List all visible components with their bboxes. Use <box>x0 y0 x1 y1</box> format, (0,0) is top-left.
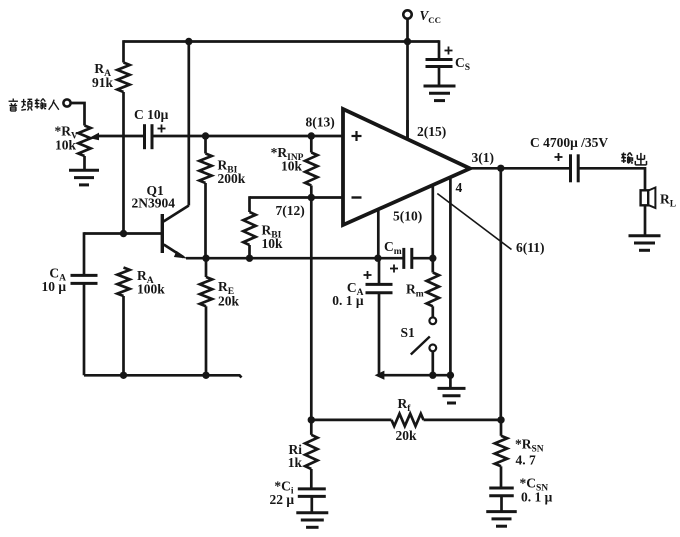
wire RA100 bottom <box>122 296 125 375</box>
wire CA bottom <box>83 283 86 375</box>
wire RE top <box>205 258 208 277</box>
terminal audio input <box>63 99 70 106</box>
switch S1 top contact <box>429 317 436 324</box>
wire cap C to op-amp pin8 <box>152 135 343 138</box>
ground bus <box>438 388 466 403</box>
label C 4700u/35V <box>530 135 608 150</box>
leader line 6(11) <box>437 194 511 250</box>
wire RBI10 top <box>248 196 251 212</box>
junction Rf Ri <box>308 416 315 423</box>
svg-text:0. 1 μ: 0. 1 μ <box>521 490 553 505</box>
ground CS <box>424 86 456 101</box>
label RBI 10k <box>262 223 284 252</box>
svg-text:3(1): 3(1) <box>472 150 495 165</box>
wire RBI200 top <box>204 136 207 154</box>
svg-text:10k: 10k <box>281 159 303 174</box>
wire CS to ground <box>438 67 441 87</box>
transistor Q1 base bar <box>161 214 164 253</box>
resistor RE 20k <box>200 277 212 306</box>
junction bus pin4 <box>447 372 454 379</box>
junction rail collector <box>185 38 192 45</box>
wire CA01 bottom <box>378 293 381 375</box>
wire emitter bus <box>186 257 404 260</box>
label RL <box>660 192 676 210</box>
label C 10u <box>134 107 169 122</box>
wire pin2 (into top edge) <box>406 120 409 140</box>
resistor Rf 20k <box>392 414 424 426</box>
wire RINP top <box>310 136 313 153</box>
label pin 2(15) <box>417 124 446 139</box>
wire pin4 to ground bus <box>449 177 452 375</box>
wire output feedback <box>499 168 502 420</box>
label RA 100k <box>137 268 165 297</box>
wire Ri to Ci <box>310 469 313 489</box>
wire base <box>84 232 161 235</box>
wire wiper to cap C <box>96 135 145 138</box>
wire RE bottom <box>205 306 208 375</box>
wire output to cap <box>468 167 571 170</box>
wiper arrow RV <box>89 133 99 141</box>
junction emitter RE <box>202 255 209 262</box>
wire Rf right <box>424 419 502 422</box>
wire CA01 top <box>378 258 381 284</box>
svg-text:1k: 1k <box>288 455 303 470</box>
svg-text:C 4700μ /35V: C 4700μ /35V <box>530 135 608 150</box>
terminal VCC <box>403 10 411 18</box>
op-amp U1 <box>343 109 470 225</box>
label pin 5(10) <box>393 209 422 224</box>
capacitor C 4700u plates <box>555 153 579 182</box>
label Rf 20k <box>396 396 418 443</box>
resistor Rm <box>427 273 439 307</box>
wire pin7 <box>250 196 344 199</box>
label Rm <box>406 282 424 300</box>
label output (CJK) <box>621 153 646 165</box>
svg-text:4: 4 <box>456 180 463 195</box>
label pin 3(1) <box>472 150 495 165</box>
wire RA91 top <box>122 40 125 62</box>
capacitor Ci plates <box>298 489 326 497</box>
wire CSN to ground <box>500 496 503 512</box>
label RSN 4.7 <box>515 437 544 468</box>
junction stub RE <box>202 372 209 379</box>
wire CS branch <box>438 40 441 59</box>
wire Ci to ground <box>310 496 313 512</box>
junction Rf RSN <box>497 416 504 423</box>
label CA 10u <box>41 266 66 295</box>
ground CSN <box>486 512 517 527</box>
wire RBI200 bottom <box>204 183 207 258</box>
junction RINP top pin8 <box>308 132 315 139</box>
wire input to pot <box>71 103 85 126</box>
junction stub RA <box>120 372 127 379</box>
label RA 91k <box>92 61 114 90</box>
resistor RA 100k <box>117 268 129 297</box>
label Cm <box>384 239 402 257</box>
resistor RBI 10k <box>243 212 255 245</box>
capacitor CA 0.1u plates <box>364 271 393 293</box>
wire RL to ground <box>644 205 647 235</box>
potentiometer RV 10k <box>78 126 90 157</box>
capacitor Cm plates <box>390 248 412 273</box>
svg-text:7(12): 7(12) <box>276 203 305 218</box>
wire VCC stem <box>406 19 409 140</box>
junction pin7 RINP <box>308 194 315 201</box>
svg-text:10k: 10k <box>262 236 284 251</box>
svg-text:C 10μ: C 10μ <box>134 107 169 122</box>
Q1 emitter arrow <box>174 251 188 259</box>
label pin 6(11) <box>516 240 545 255</box>
capacitor CSN plates <box>489 488 514 496</box>
label pin 4 <box>456 180 463 195</box>
label CA 0.1u <box>332 280 364 308</box>
capacitor CS plates <box>426 47 453 67</box>
wire cap to RL <box>578 168 645 190</box>
label S1 <box>401 325 416 340</box>
switch S1 blade <box>411 337 430 355</box>
wire RA91 bottom to base node <box>122 92 125 234</box>
svg-text:4. 7: 4. 7 <box>516 453 537 468</box>
junction VCC rail <box>404 38 411 45</box>
label pin 7(12) <box>276 203 305 218</box>
svg-text:20k: 20k <box>396 428 418 443</box>
label Ri 1k <box>288 442 303 470</box>
label audio input (CJK) <box>9 99 59 111</box>
resistor Ri 1k <box>305 435 317 469</box>
label RE 20k <box>218 279 240 309</box>
svg-text:2(15): 2(15) <box>417 124 446 139</box>
wire Rm top <box>431 258 434 272</box>
wire Cm to Rm node <box>412 257 433 260</box>
wire S1 to bus <box>431 351 434 375</box>
wire Rf left <box>311 419 391 422</box>
junction Cm Rm <box>429 255 436 262</box>
wire RSN top <box>500 420 503 436</box>
svg-text:0. 1 μ: 0. 1 μ <box>332 293 364 308</box>
junction base divider <box>120 230 127 237</box>
label RV 10k <box>55 124 79 153</box>
svg-text:6(11): 6(11) <box>516 240 545 255</box>
wire pot to ground <box>83 156 86 170</box>
label CS <box>455 55 470 73</box>
wire feedback node <box>310 198 313 420</box>
ground RV <box>69 170 99 185</box>
wire RBI10 bottom <box>248 245 251 258</box>
label RINP 10k <box>271 145 304 174</box>
resistor RSN 4.7 <box>495 436 507 467</box>
wire Rm to S1 <box>431 306 434 317</box>
wire pin5 <box>377 210 380 259</box>
wire bottom stub <box>84 375 242 377</box>
svg-text:2N3904: 2N3904 <box>132 196 176 211</box>
arrow bus end <box>375 371 385 380</box>
wire pin6 <box>431 185 434 258</box>
svg-text:91k: 91k <box>92 75 114 90</box>
svg-text:22 μ: 22 μ <box>269 492 294 507</box>
wire Ri top <box>310 420 313 435</box>
label CSN 0.1u <box>520 476 553 505</box>
wire top supply rail <box>124 40 440 43</box>
svg-text:8(13): 8(13) <box>306 115 335 130</box>
capacitor C 10u <box>145 124 166 149</box>
resistor RBI 200k <box>199 154 211 184</box>
svg-text:S1: S1 <box>401 325 416 340</box>
wire bus to ground <box>449 375 452 388</box>
label RBI 200k <box>218 158 246 187</box>
ground RL <box>629 236 661 251</box>
label pin 8(13) <box>306 115 335 130</box>
wire ground bus <box>379 374 450 377</box>
junction emitter Cm CA <box>374 255 381 262</box>
switch S1 bottom contact <box>429 345 436 352</box>
label Ci 22u <box>269 479 294 508</box>
resistor RA 91k <box>117 63 129 93</box>
ground Ci <box>296 513 328 528</box>
label Q1 2N3904 <box>132 183 176 211</box>
wire collector to rail <box>187 40 190 205</box>
wire RINP bottom <box>310 186 313 198</box>
junction RBI 200k top <box>202 132 209 139</box>
wire Q1 emitter diag <box>164 245 184 258</box>
wire CA top <box>83 232 86 275</box>
svg-text:100k: 100k <box>137 282 165 297</box>
resistor RINP 10k <box>305 153 317 186</box>
speaker RL <box>641 188 656 209</box>
svg-text:10k: 10k <box>55 138 77 153</box>
capacitor CA 10u plates <box>71 275 98 283</box>
wire Q1 collector diag <box>164 206 189 222</box>
junction bus S1 <box>429 372 436 379</box>
svg-text:10 μ: 10 μ <box>41 279 66 294</box>
svg-text:5(10): 5(10) <box>393 209 422 224</box>
svg-text:20k: 20k <box>218 294 240 309</box>
label VCC <box>420 8 442 25</box>
svg-text:200k: 200k <box>218 171 246 186</box>
wire RSN to CSN <box>500 466 503 488</box>
junction output feedback <box>497 165 504 172</box>
junction emitter RBI10k <box>246 255 253 262</box>
